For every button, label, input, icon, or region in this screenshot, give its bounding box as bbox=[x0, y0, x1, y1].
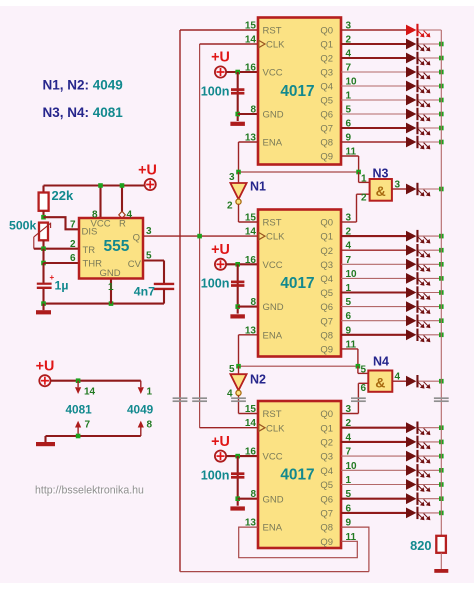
wire LED cathode to bus Q3 U4 4017 (bottom) bbox=[418, 455, 441, 457]
junction bus Q4 U3 4017 (middle) bbox=[439, 276, 444, 281]
junction bus Q8 U2 4017 (top) bbox=[439, 140, 444, 145]
svg-text:N3: N3 bbox=[373, 167, 389, 181]
wire Q1 of U2 4017 (top) to LED bbox=[341, 43, 406, 45]
wire junction to DIS pin 7 bbox=[44, 217, 80, 229]
wire Q9 U3 stub bbox=[341, 348, 358, 350]
svg-text:N1: N1 bbox=[250, 180, 266, 194]
power +U symbol for U2 4017 (top) bbox=[215, 66, 226, 77]
junction GND U2 4017 (top) bbox=[235, 112, 240, 117]
wire ground rail bottom block bbox=[46, 435, 141, 437]
power +U symbol for U4 4017 (bottom) bbox=[215, 451, 226, 462]
AND gate N4 (4081) bbox=[368, 371, 392, 392]
wire LED cathode to bus Q6 U4 4017 (bottom) bbox=[418, 498, 441, 500]
wire N3 pin2 stub bbox=[357, 193, 370, 195]
svg-text:Q5: Q5 bbox=[320, 288, 333, 299]
wire LED cathode to bus Q4 U3 4017 (middle) bbox=[418, 277, 441, 279]
svg-text:8: 8 bbox=[92, 210, 98, 221]
power +U symbol for U3 4017 (middle) bbox=[215, 259, 226, 270]
junction Q9-N4 node bbox=[356, 364, 361, 369]
crossing mark on N2 output bbox=[231, 398, 246, 401]
wire LED cathode to bus Q7 U3 4017 (middle) bbox=[418, 320, 441, 322]
wire Q5 of U4 4017 (bottom) to LED bbox=[341, 484, 406, 486]
junction rail pin4 bbox=[120, 183, 125, 188]
svg-text:4: 4 bbox=[127, 210, 133, 221]
junction bus N3 bbox=[439, 187, 444, 192]
junction +U rail 4081 pin bbox=[76, 378, 81, 383]
wire Q9 U3 down to link bbox=[357, 349, 359, 366]
junction bus Q4 U2 4017 (top) bbox=[439, 84, 444, 89]
svg-text:1: 1 bbox=[108, 282, 114, 293]
wire LED cathode to bus Q5 U2 4017 (top) bbox=[418, 99, 441, 101]
IC U3 4017 (middle) body bbox=[258, 210, 341, 357]
LED D26 on Q5 of U4 4017 (bottom) bbox=[406, 478, 430, 492]
svg-text:Q6: Q6 bbox=[320, 110, 333, 121]
wire Q6 of U4 4017 (bottom) to LED bbox=[341, 498, 406, 500]
svg-text:Q7: Q7 bbox=[320, 509, 333, 520]
wire ENA U3 stub bbox=[239, 334, 259, 336]
wire +U rail to 555 bbox=[44, 184, 145, 186]
LED D12 on Q1 of U3 4017 (middle) bbox=[406, 230, 430, 244]
wire ENA2-Q9 horizontal link bbox=[239, 365, 358, 367]
svg-text:+U: +U bbox=[211, 50, 230, 66]
svg-text:2: 2 bbox=[361, 193, 367, 204]
svg-text:Q3: Q3 bbox=[320, 452, 333, 463]
LED D19 on N4 output bbox=[406, 375, 430, 389]
wire 820 to ground bbox=[440, 553, 442, 569]
wire LED bus vertical bbox=[440, 30, 442, 536]
svg-text:CLK: CLK bbox=[266, 40, 285, 51]
svg-text:15: 15 bbox=[245, 21, 257, 32]
svg-text:Q: Q bbox=[133, 233, 140, 244]
svg-text:1: 1 bbox=[147, 387, 153, 398]
wire Q0 U3 up to N3 pin2 bbox=[356, 194, 358, 222]
wire CV to C2 top bbox=[163, 261, 165, 284]
LED D8 on Q7 of U2 4017 (top) bbox=[406, 122, 430, 136]
svg-text:+U: +U bbox=[211, 434, 230, 450]
svg-text:Q4: Q4 bbox=[320, 466, 333, 477]
svg-text:16: 16 bbox=[245, 447, 257, 458]
wire 555 VCC pin 8 bbox=[99, 186, 101, 219]
junction bus Q6 U2 4017 (top) bbox=[439, 112, 444, 117]
arrow pin 8 of 4049 bbox=[138, 421, 144, 428]
svg-text:Q7: Q7 bbox=[320, 316, 333, 327]
svg-text:2: 2 bbox=[227, 201, 233, 212]
wire 555 R pin 4 bbox=[121, 186, 123, 212]
resistor R1 22k bbox=[39, 193, 49, 211]
svg-text:Q8: Q8 bbox=[320, 523, 333, 534]
wire N1 input stub bbox=[238, 172, 240, 183]
ground bottom left block bbox=[36, 442, 55, 446]
svg-text:R: R bbox=[119, 218, 126, 229]
wire N3 pin1 stub bbox=[359, 181, 370, 183]
wire +U to VCC U2 4017 (top) bbox=[226, 71, 258, 73]
wire 555 output to CLK of U3 bbox=[143, 235, 258, 237]
arrow pin 7 of 4081 bbox=[75, 421, 81, 428]
wire LED cathode to bus Q0 U2 4017 (top) bbox=[418, 29, 441, 31]
wire Q6 of U2 4017 (top) to LED bbox=[341, 113, 406, 115]
svg-text:5: 5 bbox=[229, 364, 235, 375]
wire Q5 of U3 4017 (middle) to LED bbox=[341, 291, 406, 293]
power +U symbol bottom left bbox=[39, 375, 50, 386]
wire Q0 of U2 4017 (top) to LED bbox=[341, 29, 406, 31]
svg-text:Q2: Q2 bbox=[320, 54, 333, 65]
svg-text:100n: 100n bbox=[201, 468, 230, 482]
wire Q7 of U2 4017 (top) to LED bbox=[341, 127, 406, 129]
LED D17 on Q6 of U3 4017 (middle) bbox=[406, 300, 430, 314]
LED D4 on Q3 of U2 4017 (top) bbox=[406, 66, 430, 80]
svg-text:Q2: Q2 bbox=[320, 438, 333, 449]
wire LED cathode to bus Q5 U4 4017 (bottom) bbox=[418, 484, 441, 486]
wire N2 output down to RST U4 bbox=[238, 396, 240, 414]
capacitor 100n for U2 4017 (top) bbox=[231, 90, 244, 94]
svg-text:3: 3 bbox=[146, 226, 152, 237]
LED D6 on Q5 of U2 4017 (top) bbox=[406, 94, 430, 108]
svg-text:http://bsselektronika.hu: http://bsselektronika.hu bbox=[35, 485, 144, 497]
svg-text:14: 14 bbox=[245, 35, 257, 46]
svg-text:N1, N2: 4049: N1, N2: 4049 bbox=[43, 78, 123, 93]
wire LED cathode to bus Q4 U2 4017 (top) bbox=[418, 85, 441, 87]
svg-text:Q9: Q9 bbox=[320, 152, 333, 163]
svg-text:VCC: VCC bbox=[263, 260, 283, 271]
wire LED cathode to bus Q4 U4 4017 (bottom) bbox=[418, 469, 441, 471]
junction bus Q5 U2 4017 (top) bbox=[439, 98, 444, 103]
svg-text:CV: CV bbox=[128, 259, 142, 270]
LED D16 on Q5 of U3 4017 (middle) bbox=[406, 286, 430, 300]
wire C1 bottom to rail bbox=[42, 289, 44, 304]
junction bus N4 bbox=[439, 379, 444, 384]
svg-text:Q2: Q2 bbox=[320, 246, 333, 257]
svg-text:Q5: Q5 bbox=[320, 96, 333, 107]
svg-text:16: 16 bbox=[245, 255, 257, 266]
wire 22k top stub bbox=[42, 186, 44, 193]
svg-text:500k: 500k bbox=[9, 219, 37, 233]
wire LED cathode to bus Q2 U3 4017 (middle) bbox=[418, 249, 441, 251]
junction bus Q4 U4 4017 (bottom) bbox=[439, 468, 444, 473]
svg-text:Q3: Q3 bbox=[320, 260, 333, 271]
wire Q0 U3 stub bbox=[341, 221, 357, 223]
svg-text:Q4: Q4 bbox=[320, 82, 333, 93]
junction VCC rail pin8 bbox=[98, 183, 103, 188]
wire N2 input stub bbox=[238, 366, 240, 374]
junction VCC U4 4017 (bottom) bbox=[235, 454, 240, 459]
svg-text:VCC: VCC bbox=[263, 452, 283, 463]
ground below 820 bbox=[434, 569, 448, 573]
junction C1 rail bbox=[41, 301, 46, 306]
wire stub 4081 pin7 to rail bbox=[77, 428, 79, 437]
CLK edge marker U4 4017 (bottom) bbox=[259, 424, 265, 431]
wire decoupling vertical U4 4017 (bottom) bbox=[237, 456, 239, 506]
wire stub 4049 pin8 to rail bbox=[140, 428, 142, 437]
svg-text:8: 8 bbox=[250, 105, 256, 116]
wire LED cathode to bus Q8 U2 4017 (top) bbox=[418, 141, 441, 143]
svg-text:555: 555 bbox=[104, 238, 130, 255]
svg-text:ENA: ENA bbox=[263, 138, 283, 149]
wire Q1 of U4 4017 (bottom) to LED bbox=[341, 427, 406, 429]
svg-text:Q0: Q0 bbox=[320, 26, 333, 37]
svg-text:Q1: Q1 bbox=[320, 40, 333, 51]
svg-text:GND: GND bbox=[99, 268, 120, 279]
wire Q8 of U2 4017 (top) to LED bbox=[341, 141, 406, 143]
LED D28 on Q7 of U4 4017 (bottom) bbox=[406, 507, 430, 521]
wire Q4 of U4 4017 (bottom) to LED bbox=[341, 469, 406, 471]
wire N4 pin6 stub bbox=[358, 382, 368, 384]
wire 555 GND pin 1 bbox=[110, 279, 112, 304]
wire N1 to RST U3 bbox=[239, 221, 259, 223]
wire N1 output down bbox=[238, 204, 240, 222]
junction bus Q2 U2 4017 (top) bbox=[439, 56, 444, 61]
svg-text:100n: 100n bbox=[201, 277, 230, 291]
wire Q9 U2 stub bbox=[341, 155, 359, 157]
svg-text:3: 3 bbox=[229, 172, 235, 183]
wire LED cathode to bus Q1 U3 4017 (middle) bbox=[418, 235, 441, 237]
svg-text:Q6: Q6 bbox=[320, 302, 333, 313]
junction bus Q2 U4 4017 (bottom) bbox=[439, 440, 444, 445]
wire Q3 of U4 4017 (bottom) to LED bbox=[341, 455, 406, 457]
svg-text:5: 5 bbox=[146, 250, 152, 261]
wire Q8 of U3 4017 (middle) to LED bbox=[341, 334, 406, 336]
wire link down to N3 pin1 bbox=[358, 172, 360, 182]
junction VCC U3 4017 (middle) bbox=[235, 262, 240, 267]
wire LED cathode to bus Q3 U2 4017 (top) bbox=[418, 71, 441, 73]
crossing mark on LED bus bbox=[434, 398, 449, 401]
LED D7 on Q6 of U2 4017 (top) bbox=[406, 108, 430, 122]
LED D10 on N3 output bbox=[406, 183, 430, 197]
svg-text:16: 16 bbox=[245, 63, 257, 74]
wire LED cathode to bus Q2 U4 4017 (bottom) bbox=[418, 441, 441, 443]
svg-text:+U: +U bbox=[138, 163, 157, 179]
power +U symbol for 555 bbox=[145, 179, 156, 190]
junction Q9-N3 node bbox=[356, 170, 361, 175]
wire ENA U2 down bbox=[238, 142, 240, 172]
svg-text:ENA: ENA bbox=[263, 523, 283, 534]
crossing mark on RST bus bbox=[173, 398, 188, 401]
junction VCC U2 4017 (top) bbox=[235, 70, 240, 75]
svg-text:5: 5 bbox=[360, 365, 366, 376]
wire +U rail bottom block bbox=[51, 380, 141, 382]
ground below 100n U2 4017 (top) bbox=[230, 122, 245, 126]
svg-text:GND: GND bbox=[263, 302, 284, 313]
wire TR node to pin 2 bbox=[34, 248, 79, 250]
LED D27 on Q6 of U4 4017 (bottom) bbox=[406, 493, 430, 507]
inverter N2 (4049) bbox=[230, 374, 246, 395]
wire Q4 of U2 4017 (top) to LED bbox=[341, 85, 406, 87]
wire ENA U3 down bbox=[238, 335, 240, 366]
wire stub to 4081 pin 14 bbox=[77, 381, 79, 388]
wire GND pin U2 4017 (top) bbox=[238, 113, 258, 115]
svg-text:Q1: Q1 bbox=[320, 232, 333, 243]
wire RST loop bottom horizontal bbox=[180, 571, 369, 573]
junction bus Q3 U2 4017 (top) bbox=[439, 70, 444, 75]
svg-text:DIS: DIS bbox=[82, 227, 98, 238]
LED D1 on Q0 of U2 4017 (top) bbox=[406, 24, 430, 38]
junction bus Q1 U4 4017 (bottom) bbox=[439, 425, 444, 430]
svg-text:Q6: Q6 bbox=[320, 494, 333, 505]
wire RST bus vertical x=180 (Q8 of U4 to RST of U2) bbox=[179, 30, 181, 572]
wire LED cathode to bus Q6 U3 4017 (middle) bbox=[418, 306, 441, 308]
LED D18 on Q7 of U3 4017 (middle) bbox=[406, 315, 430, 329]
wire LED cathode to bus Q2 U2 4017 (top) bbox=[418, 57, 441, 59]
wire ENA U2 stub bbox=[239, 141, 259, 143]
wire TR to THR vertical bbox=[42, 249, 44, 263]
pin 4 diamond marker bbox=[119, 211, 125, 218]
junction below 22k bbox=[41, 215, 46, 220]
wire Q6 of U3 4017 (middle) to LED bbox=[341, 306, 406, 308]
capacitor 100n for U3 4017 (middle) bbox=[231, 282, 244, 286]
CLK edge marker U3 4017 (middle) bbox=[259, 233, 265, 240]
svg-text:Q0: Q0 bbox=[320, 218, 333, 229]
ground below 100n U3 4017 (middle) bbox=[230, 314, 245, 318]
junction bus Q7 U3 4017 (middle) bbox=[439, 318, 444, 323]
svg-text:14: 14 bbox=[245, 418, 257, 429]
wire LED cathode to bus Q8 U3 4017 (middle) bbox=[418, 334, 441, 336]
wire ENA1-Q9 horizontal link bbox=[239, 171, 359, 173]
svg-text:Q9: Q9 bbox=[320, 537, 333, 548]
junction bus Q3 U4 4017 (bottom) bbox=[439, 454, 444, 459]
svg-text:TR: TR bbox=[83, 245, 96, 256]
wire LED cathode to bus Q6 U2 4017 (top) bbox=[418, 113, 441, 115]
svg-text:14: 14 bbox=[245, 227, 257, 238]
wire LED cathode to bus Q3 U3 4017 (middle) bbox=[418, 263, 441, 265]
svg-text:&: & bbox=[375, 374, 385, 390]
wire Q2 of U2 4017 (top) to LED bbox=[341, 57, 406, 59]
svg-text:4017: 4017 bbox=[280, 467, 314, 484]
junction bus Q8 U3 4017 (middle) bbox=[439, 333, 444, 338]
junction clock node bbox=[197, 234, 202, 239]
wire Q8 U4 to RST bus bbox=[341, 527, 369, 572]
resistor R2 820 bbox=[436, 536, 446, 553]
junction bus Q5 U4 4017 (bottom) bbox=[439, 482, 444, 487]
svg-text:RST: RST bbox=[263, 26, 282, 37]
svg-text:7: 7 bbox=[70, 220, 76, 231]
svg-text:Q3: Q3 bbox=[320, 68, 333, 79]
ground below 100n U4 4017 (bottom) bbox=[230, 506, 245, 510]
AND gate N3 (4081) bbox=[370, 179, 392, 201]
junction N1 input bbox=[236, 170, 241, 175]
potentiometer P1 500k body bbox=[39, 223, 48, 241]
wire CLK of U2 horizontal bbox=[200, 43, 258, 45]
svg-text:8: 8 bbox=[147, 420, 153, 431]
LED D9 on Q8 of U2 4017 (top) bbox=[406, 136, 430, 150]
wire Q5 of U2 4017 (top) to LED bbox=[341, 99, 406, 101]
capacitor C1 1u bbox=[37, 283, 52, 289]
LED D24 on Q3 of U4 4017 (bottom) bbox=[406, 450, 430, 464]
svg-text:Q1: Q1 bbox=[320, 423, 333, 434]
svg-text:22k: 22k bbox=[52, 188, 74, 203]
arrow pin 1 of 4049 bbox=[138, 387, 144, 394]
wire THR node to pin 6 bbox=[44, 262, 80, 264]
wire LED cathode to bus Q1 U4 4017 (bottom) bbox=[418, 427, 441, 429]
capacitor 100n for U4 4017 (bottom) bbox=[231, 474, 244, 478]
svg-text:820: 820 bbox=[410, 538, 431, 553]
svg-text:Q8: Q8 bbox=[320, 330, 333, 341]
wire N4 pin5 stub bbox=[358, 372, 368, 374]
svg-text:6: 6 bbox=[70, 253, 76, 264]
svg-text:&: & bbox=[376, 183, 386, 199]
potentiometer P1 wiper arrow bbox=[34, 223, 51, 249]
IC U4 4017 (bottom) body bbox=[258, 401, 341, 548]
wire decoupling vertical U3 4017 (middle) bbox=[237, 264, 239, 313]
svg-text:4017: 4017 bbox=[280, 83, 314, 100]
svg-text:VCC: VCC bbox=[263, 68, 283, 79]
LED D22 on Q1 of U4 4017 (bottom) bbox=[406, 422, 430, 436]
svg-text:GND: GND bbox=[263, 110, 284, 121]
svg-text:+U: +U bbox=[211, 242, 230, 258]
wire Q7 of U4 4017 (bottom) to LED bbox=[341, 512, 406, 514]
junction GND U4 4017 (bottom) bbox=[235, 496, 240, 501]
wire N4 LED to bus bbox=[418, 380, 441, 382]
junction THR node bbox=[41, 261, 46, 266]
svg-text:1: 1 bbox=[361, 174, 367, 185]
svg-text:GND: GND bbox=[263, 494, 284, 505]
svg-text:N2: N2 bbox=[250, 373, 266, 387]
svg-text:Q0: Q0 bbox=[320, 409, 333, 420]
svg-text:Q9: Q9 bbox=[320, 345, 333, 356]
LED D19 on Q8 of U3 4017 (middle) bbox=[406, 329, 430, 343]
svg-text:+U: +U bbox=[36, 359, 55, 375]
LED D2 on Q1 of U2 4017 (top) bbox=[406, 38, 430, 52]
wire 555 ground rail bbox=[44, 303, 165, 305]
wire N2 to RST U4 horizontal bbox=[239, 413, 259, 415]
svg-text:2: 2 bbox=[70, 239, 76, 250]
crossing mark on N4 pin6 wire bbox=[351, 398, 366, 401]
wire LED cathode to bus Q7 U4 4017 (bottom) bbox=[418, 512, 441, 514]
junction bus Q7 U2 4017 (top) bbox=[439, 126, 444, 131]
LED D3 on Q2 of U2 4017 (top) bbox=[406, 52, 430, 66]
wire LED cathode to bus Q1 U2 4017 (top) bbox=[418, 43, 441, 45]
svg-text:RST: RST bbox=[263, 409, 282, 420]
CLK edge marker U2 4017 (top) bbox=[259, 40, 265, 47]
junction bus Q1 U2 4017 (top) bbox=[439, 42, 444, 47]
wire RST of U2 horizontal bbox=[180, 29, 258, 31]
LED D23 on Q2 of U4 4017 (bottom) bbox=[406, 436, 430, 450]
svg-text:Q4: Q4 bbox=[320, 274, 333, 285]
wire decoupling vertical U2 4017 (top) bbox=[237, 72, 239, 121]
LED D25 on Q4 of U4 4017 (bottom) bbox=[406, 464, 430, 478]
arrow pin 14 of 4081 bbox=[75, 387, 81, 394]
wire 22k bottom stub bbox=[42, 211, 44, 217]
svg-text:8: 8 bbox=[250, 297, 256, 308]
junction bus Q7 U4 4017 (bottom) bbox=[439, 511, 444, 516]
junction bus Q5 U3 4017 (middle) bbox=[439, 290, 444, 295]
svg-text:Q8: Q8 bbox=[320, 138, 333, 149]
wire pot bottom to TR node bbox=[42, 240, 44, 248]
wire Q7 of U3 4017 (middle) to LED bbox=[341, 320, 406, 322]
svg-text:4n7: 4n7 bbox=[134, 285, 155, 299]
svg-text:4049: 4049 bbox=[127, 403, 154, 417]
wire 555 CV pin 5 horizontal bbox=[143, 259, 164, 261]
wire CLK of U4 horizontal bbox=[200, 427, 258, 429]
junction TR node bbox=[41, 246, 46, 251]
junction N2 input bbox=[236, 364, 241, 369]
IC U2 4017 (top) body bbox=[258, 18, 341, 165]
wire Q2 of U4 4017 (bottom) to LED bbox=[341, 441, 406, 443]
junction 555 GND pin rail bbox=[109, 301, 114, 306]
wire N3 LED to bus bbox=[418, 188, 441, 190]
wire Q0 U4 stub bbox=[341, 413, 358, 415]
svg-text:RST: RST bbox=[263, 218, 282, 229]
wire N4 pin6 down to Q0 U4 bbox=[357, 383, 359, 413]
svg-text:Q7: Q7 bbox=[320, 124, 333, 135]
junction bus Q3 U3 4017 (middle) bbox=[439, 262, 444, 267]
svg-text:N3, N4: 4081: N3, N4: 4081 bbox=[43, 105, 124, 120]
ground below C1 bbox=[36, 310, 51, 314]
wire THR to C1 top bbox=[42, 263, 44, 283]
wire +U to VCC U3 4017 (middle) bbox=[226, 263, 258, 265]
svg-text:N4: N4 bbox=[373, 355, 389, 369]
wire GND pin U4 4017 (bottom) bbox=[238, 498, 258, 500]
junction bus Q6 U3 4017 (middle) bbox=[439, 304, 444, 309]
wire stub to 4049 pin 1 bbox=[140, 381, 142, 388]
